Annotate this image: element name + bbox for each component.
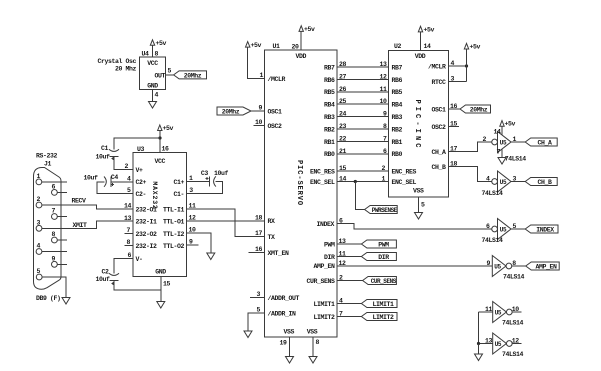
- svg-text:10uf: 10uf: [96, 154, 111, 161]
- svg-text:C4: C4: [111, 174, 119, 181]
- J1 pin 6: [52, 190, 58, 196]
- svg-text:RB5: RB5: [324, 89, 335, 96]
- net tag 20Mhz at U1 OSC1: [217, 107, 251, 115]
- svg-text:14: 14: [124, 203, 132, 210]
- svg-text:+5v: +5v: [251, 42, 262, 49]
- wire U2 pin 3 RTCC: [449, 81, 467, 83]
- svg-text:U5: U5: [500, 139, 507, 146]
- svg-text:9: 9: [486, 260, 490, 267]
- svg-text:OUT: OUT: [154, 72, 165, 79]
- svg-text:5: 5: [421, 202, 425, 209]
- wire XMIT from J1.3 to U3.13: [42, 221, 133, 228]
- svg-text:U2: U2: [394, 43, 402, 50]
- svg-text:14: 14: [339, 176, 347, 183]
- svg-text:PWM: PWM: [324, 241, 335, 248]
- wire RB6 U1.27 to U2.12: [337, 78, 389, 80]
- junction at /MCLR +5v: [465, 64, 468, 67]
- net tag CH_A: [525, 138, 557, 146]
- svg-text:RB3: RB3: [392, 114, 403, 121]
- wire U3 pin 11 TTL-I1 to U1 TX: [187, 209, 265, 237]
- svg-text:16: 16: [255, 246, 263, 253]
- wire U3 pin 4 C2+ to C4: [111, 181, 133, 183]
- svg-text:8: 8: [126, 239, 130, 246]
- svg-text:232-O2: 232-O2: [136, 231, 158, 238]
- net tag INDEX: [525, 225, 558, 233]
- svg-text:Crystal Osc: Crystal Osc: [97, 58, 136, 65]
- svg-text:12: 12: [339, 260, 347, 267]
- ground at U1 /ADDR_IN: [244, 331, 252, 338]
- svg-text:GND: GND: [155, 269, 166, 276]
- wire from junction to C1: [114, 138, 160, 150]
- wire RB7 U1.28 to U2.13: [337, 66, 389, 68]
- svg-text:3: 3: [256, 291, 260, 298]
- wire U5A output to CH_A tag: [511, 141, 525, 143]
- inverter U5D 74LS14 (AMP_EN): [492, 256, 506, 277]
- net tag LIMIT2: [361, 313, 397, 321]
- wire U2 pin 4 /MCLR to +5v: [449, 65, 467, 67]
- net tag PWRSENSE: [365, 206, 398, 214]
- svg-text:RTCC: RTCC: [431, 79, 446, 86]
- svg-text:10: 10: [379, 98, 387, 105]
- svg-text:RB5: RB5: [392, 89, 403, 96]
- svg-text:VSS: VSS: [413, 187, 424, 194]
- wire U5F output stub: [512, 343, 521, 345]
- svg-text:5: 5: [37, 268, 41, 275]
- wire pin9 stub: [57, 263, 67, 265]
- J1 pin 2: [36, 202, 42, 208]
- junction spare inputs: [477, 342, 480, 345]
- ground at U3 pin 15: [157, 302, 165, 309]
- svg-text:LIMIT1: LIMIT1: [372, 301, 394, 308]
- wire U2 pin 15 OSC2 stub: [449, 126, 460, 128]
- junction on VCC wire: [158, 136, 161, 139]
- svg-text:PWM: PWM: [378, 241, 389, 248]
- ground at J1.5: [62, 298, 70, 305]
- wire U2 pin 16 OSC1 to tag: [449, 108, 461, 110]
- wire U1 pin 5 /ADDR_IN to ground: [248, 313, 265, 331]
- svg-text:23: 23: [339, 123, 347, 130]
- power +5v at U2 /MCLR: [464, 43, 468, 49]
- net tag CH_B: [525, 178, 557, 186]
- wire U5B output to CH_B tag: [511, 181, 525, 183]
- power +5v at U1 VDD: [299, 26, 303, 32]
- svg-text:24: 24: [339, 111, 347, 118]
- net tag CUR_SENS: [363, 277, 397, 285]
- svg-text:ENC_RES: ENC_RES: [310, 168, 335, 175]
- svg-text:TTL-O2: TTL-O2: [163, 243, 185, 250]
- wire U4 pin 8 to +5v: [152, 45, 154, 57]
- svg-text:13: 13: [339, 238, 347, 245]
- ground at U5A pin 7: [498, 158, 506, 165]
- svg-text:C1-: C1-: [173, 191, 184, 198]
- svg-text:VSS: VSS: [307, 328, 318, 335]
- svg-text:20 Mhz: 20 Mhz: [115, 65, 137, 72]
- J1 pin 1: [36, 179, 42, 185]
- svg-text:C1+: C1+: [173, 179, 184, 186]
- svg-text:10uf: 10uf: [214, 170, 229, 177]
- svg-text:17: 17: [255, 230, 263, 237]
- svg-text:14: 14: [424, 43, 432, 50]
- ground at U3 TTL-I2: [207, 253, 215, 260]
- svg-text:XMT_EN: XMT_EN: [268, 250, 290, 257]
- svg-text:2: 2: [339, 275, 343, 282]
- svg-text:U5: U5: [494, 263, 501, 270]
- wire U2 pin 5 VSS to ground: [418, 197, 420, 213]
- svg-text:PWRSENSE: PWRSENSE: [372, 207, 398, 214]
- svg-text:/ADDR_IN: /ADDR_IN: [268, 311, 297, 318]
- net tag LIMIT1: [361, 300, 397, 308]
- svg-text:7: 7: [52, 208, 56, 215]
- svg-text:ENC_SEL: ENC_SEL: [392, 179, 417, 186]
- svg-text:1: 1: [37, 173, 41, 180]
- svg-text:1: 1: [259, 72, 263, 79]
- svg-text:10: 10: [189, 226, 197, 233]
- svg-text:DIR: DIR: [378, 254, 389, 261]
- svg-text:C3: C3: [201, 170, 209, 177]
- svg-text:OSC1: OSC1: [431, 106, 446, 113]
- svg-text:RB7: RB7: [392, 64, 403, 71]
- svg-text:LIMIT1: LIMIT1: [313, 301, 335, 308]
- wire RB1 U1.22 to U2.7: [337, 140, 389, 142]
- wire U3 pin 1 C1+ to C3: [187, 180, 210, 182]
- svg-text:RB3: RB3: [324, 114, 335, 121]
- svg-text:CUR_SENS: CUR_SENS: [306, 278, 335, 285]
- wire U3 pin 12 TTL-O1 to U1 RX: [187, 220, 265, 222]
- J1 pin 7: [52, 214, 58, 220]
- wire RECV from J1.2 to U3.14: [42, 205, 133, 209]
- svg-text:C1: C1: [101, 145, 109, 152]
- svg-text:28: 28: [339, 61, 347, 68]
- power +5v at U3: [158, 125, 162, 131]
- wire spare inputs to ground: [478, 344, 480, 355]
- svg-text:12: 12: [379, 73, 387, 80]
- svg-text:U5: U5: [500, 226, 507, 233]
- svg-text:4: 4: [451, 60, 455, 67]
- svg-text:15: 15: [339, 165, 347, 172]
- wire U4 pin 4 to ground: [152, 90, 154, 102]
- svg-text:18: 18: [255, 214, 263, 221]
- svg-text:RX: RX: [268, 218, 276, 225]
- svg-text:J1: J1: [44, 161, 52, 168]
- connector J1 DB9 outline: [34, 168, 62, 290]
- svg-text:C2: C2: [102, 269, 110, 276]
- wire pin1 stub: [42, 181, 67, 183]
- IC U3 MAX232 body: [133, 153, 187, 277]
- svg-text:10uf: 10uf: [96, 276, 111, 283]
- svg-text:U3: U3: [137, 146, 145, 153]
- svg-text:ENC_SEL: ENC_SEL: [310, 179, 335, 186]
- wire U5E input: [479, 311, 493, 313]
- net tag DIR: [361, 253, 396, 261]
- wire U2 pin 14 VDD to +5v: [420, 32, 422, 51]
- J1 pin 8: [52, 237, 58, 243]
- wire INDEX U1.6 to inverter: [337, 224, 492, 230]
- power +5v at U4: [150, 40, 154, 46]
- svg-text:VCC: VCC: [155, 158, 166, 165]
- svg-text:CUR_SENS: CUR_SENS: [371, 278, 397, 285]
- wire U1 pin 16 XMT_EN stub: [249, 252, 265, 254]
- wire U3 pin 7 232-O2 stub: [125, 233, 134, 235]
- svg-text:9: 9: [189, 238, 193, 245]
- svg-text:+5v: +5v: [424, 27, 435, 34]
- svg-text:232-I1: 232-I1: [136, 219, 158, 226]
- svg-text:7: 7: [383, 135, 387, 142]
- svg-text:74LS14: 74LS14: [502, 351, 524, 358]
- svg-text:CH_B: CH_B: [537, 179, 552, 186]
- inverter U5B 74LS14 (CH_B): [492, 179, 498, 185]
- svg-text:TTL-O1: TTL-O1: [163, 219, 185, 226]
- svg-text:232-I2: 232-I2: [136, 243, 158, 250]
- svg-text:4: 4: [37, 243, 41, 250]
- svg-text:13: 13: [124, 215, 132, 222]
- inverter U5F 74LS14 (spare): [493, 333, 507, 354]
- net tag 20Mhz at U2 OSC1: [460, 105, 491, 113]
- svg-text:3: 3: [189, 187, 193, 194]
- svg-text:18: 18: [450, 161, 458, 168]
- svg-text:VDD: VDD: [295, 53, 306, 60]
- svg-text:3: 3: [451, 76, 455, 83]
- svg-text:RB4: RB4: [392, 102, 403, 109]
- svg-text:8: 8: [52, 231, 56, 238]
- wire U1 pin 8 VSS to ground: [312, 337, 314, 357]
- svg-text:6: 6: [486, 223, 490, 230]
- svg-text:AMP_EN: AMP_EN: [313, 263, 335, 270]
- wire U2 pin 17 CH_A to inverter U5A: [449, 142, 492, 152]
- J1 pin 3: [36, 225, 42, 231]
- wire junction to PWRSENSE tag: [355, 182, 364, 210]
- wire pin7 stub: [57, 216, 67, 218]
- svg-text:74LS14: 74LS14: [503, 274, 525, 281]
- wire +5v riser: [466, 49, 468, 82]
- wire AMP_EN U1.12 to inverter: [337, 265, 492, 267]
- svg-text:10uf: 10uf: [84, 175, 99, 182]
- ground at U1 pin 19: [286, 357, 294, 364]
- wire pin8 stub: [57, 239, 67, 241]
- ground at U4: [149, 102, 157, 109]
- junction on ENC_SEL wire: [354, 180, 357, 183]
- svg-text:8: 8: [316, 339, 320, 346]
- svg-text:1: 1: [189, 175, 193, 182]
- svg-text:AMP_EN: AMP_EN: [535, 263, 557, 270]
- capacitor C3: [208, 176, 210, 186]
- svg-text:12: 12: [189, 214, 197, 221]
- svg-text:4: 4: [127, 175, 131, 182]
- wire ENC_RES U1.15 to U2.2: [337, 170, 389, 172]
- svg-text:74LS14: 74LS14: [482, 237, 504, 244]
- svg-text:RB7: RB7: [324, 64, 335, 71]
- svg-text:27: 27: [339, 73, 347, 80]
- svg-text:TTL-I1: TTL-I1: [163, 207, 185, 214]
- capacitor C1: [109, 149, 119, 151]
- svg-text:C2+: C2+: [136, 179, 147, 186]
- wire U1 pin 19 VSS to ground: [289, 337, 291, 357]
- power +5v at U5A: [500, 121, 504, 127]
- oscillator U4 body: [140, 57, 166, 90]
- svg-text:8: 8: [155, 51, 159, 58]
- svg-text:TTL-I2: TTL-I2: [163, 231, 185, 238]
- svg-text:VSS: VSS: [284, 328, 295, 335]
- net tag AMP_EN: [526, 262, 560, 270]
- svg-text:14: 14: [493, 129, 501, 136]
- wire RB5 U1.26 to U2.11: [337, 91, 389, 93]
- wire RB2 U1.23 to U2.8: [337, 128, 389, 130]
- svg-text:3: 3: [37, 220, 41, 227]
- wire U1.7 to LIMIT2 tag: [337, 316, 361, 318]
- ground at spare inverter inputs: [475, 354, 483, 361]
- wire J1.5 to ground: [42, 277, 66, 298]
- svg-text:19: 19: [280, 340, 288, 347]
- svg-text:INDEX: INDEX: [316, 221, 334, 228]
- svg-text:21: 21: [339, 148, 347, 155]
- svg-text:9: 9: [52, 256, 56, 263]
- svg-text:20Mhz: 20Mhz: [222, 109, 240, 116]
- svg-text:RB2: RB2: [324, 126, 335, 133]
- svg-text:DB9 (F): DB9 (F): [36, 295, 61, 302]
- svg-text:4: 4: [155, 92, 159, 99]
- svg-text:RB6: RB6: [392, 77, 403, 84]
- wire U5D output to AMP_EN tag: [512, 265, 526, 267]
- svg-text:+5v: +5v: [304, 26, 315, 33]
- svg-text:20Mhz: 20Mhz: [184, 72, 202, 79]
- wire RB3 U1.24 to U2.9: [337, 116, 389, 118]
- wire U5F input: [479, 343, 493, 345]
- svg-text:/MCLR: /MCLR: [268, 76, 286, 83]
- svg-text:V-: V-: [136, 256, 143, 263]
- wire U3 pin 16 VCC to +5v: [159, 131, 161, 153]
- svg-text:RB1: RB1: [392, 139, 403, 146]
- svg-text:XMIT: XMIT: [73, 222, 88, 229]
- wire U1.4 to LIMIT1 tag: [337, 303, 361, 305]
- svg-text:GND: GND: [147, 83, 158, 90]
- power +5v at U1 /MCLR: [246, 42, 250, 48]
- svg-text:CH_B: CH_B: [431, 164, 446, 171]
- svg-text:LIMIT2: LIMIT2: [372, 314, 394, 321]
- svg-text:13: 13: [379, 61, 387, 68]
- wire U4 pin 5 OUT: [166, 74, 174, 76]
- svg-text:INDEX: INDEX: [536, 226, 554, 233]
- svg-text:RB4: RB4: [324, 102, 335, 109]
- wire RB0 U1.21 to U2.6: [337, 153, 389, 155]
- svg-text:11: 11: [379, 86, 387, 93]
- ground at U1 pin 8: [309, 357, 317, 364]
- svg-text:20Mhz: 20Mhz: [470, 106, 488, 113]
- inverter U5A 74LS14 (CH_A): [492, 139, 498, 145]
- svg-text:6: 6: [127, 252, 131, 259]
- net tag PWM: [361, 240, 396, 248]
- wire U1.13 to PWM tag: [337, 243, 361, 245]
- svg-text:MAX232: MAX232: [151, 181, 158, 209]
- wire U5A pin 14 to +5v: [501, 126, 503, 135]
- svg-text:OSC2: OSC2: [268, 123, 283, 130]
- svg-text:17: 17: [450, 146, 458, 153]
- svg-text:PIC-INC: PIC-INC: [413, 99, 421, 150]
- svg-text:15: 15: [450, 121, 458, 128]
- wire pin4 stub: [42, 251, 67, 253]
- wire U5C output to INDEX tag: [511, 228, 525, 230]
- svg-text:2: 2: [124, 163, 128, 170]
- wire +5v to U1 pin 1 /MCLR: [248, 47, 265, 78]
- svg-text:RS-232: RS-232: [36, 153, 58, 160]
- svg-text:CH_A: CH_A: [431, 149, 446, 156]
- svg-text:RB2: RB2: [392, 126, 403, 133]
- svg-text:U5: U5: [500, 179, 507, 186]
- svg-text:4: 4: [486, 176, 490, 183]
- wire ENC_SEL U1.14 to U2.1: [337, 181, 389, 183]
- svg-text:6: 6: [383, 148, 387, 155]
- svg-text:5: 5: [127, 187, 131, 194]
- svg-text:CH_A: CH_A: [537, 139, 552, 146]
- capacitor C4: [110, 177, 112, 187]
- svg-text:9: 9: [383, 111, 387, 118]
- svg-text:U5: U5: [495, 309, 502, 316]
- svg-text:U4: U4: [142, 51, 150, 58]
- svg-text:LIMIT2: LIMIT2: [313, 314, 335, 321]
- wire spare inputs tied: [478, 312, 480, 344]
- svg-text:C2-: C2-: [136, 191, 147, 198]
- wire U3 pin 9 TTL-O2 stub: [187, 244, 199, 246]
- wire pin6 stub: [57, 191, 67, 193]
- wire C1 to U3 pin 2 V+: [114, 157, 133, 170]
- svg-text:RECV: RECV: [72, 198, 87, 205]
- wire C4 to U3 pin 5 C2-: [97, 182, 133, 194]
- svg-text:6: 6: [52, 184, 56, 191]
- svg-text:2: 2: [381, 165, 385, 172]
- svg-text:+5v: +5v: [156, 40, 167, 47]
- wire U3 pin 10 TTL-I2 to ground: [187, 233, 211, 253]
- svg-text:OSC1: OSC1: [268, 109, 283, 116]
- svg-text:OSC2: OSC2: [431, 124, 446, 131]
- wire C2 to GND line: [114, 281, 161, 291]
- wire U3 pin 6 V- to C2: [114, 259, 133, 274]
- svg-text:22: 22: [339, 135, 347, 142]
- svg-text:25: 25: [339, 98, 347, 105]
- svg-text:/MCLR: /MCLR: [428, 63, 446, 70]
- svg-text:DIR: DIR: [324, 254, 335, 261]
- svg-text:+5v: +5v: [470, 44, 481, 51]
- wire RB4 U1.25 to U2.10: [337, 103, 389, 105]
- svg-text:6: 6: [339, 218, 343, 225]
- wire U1 pin 20 VDD to +5v: [300, 32, 302, 51]
- svg-text:9: 9: [258, 105, 262, 112]
- svg-text:7: 7: [126, 227, 130, 234]
- svg-text:VCC: VCC: [147, 60, 158, 67]
- svg-text:RB6: RB6: [324, 77, 335, 84]
- svg-text:+5v: +5v: [163, 125, 174, 132]
- svg-text:15: 15: [163, 281, 171, 288]
- J1 pin 4: [36, 249, 42, 255]
- svg-text:232-O1: 232-O1: [136, 207, 158, 214]
- svg-text:/ADDR_OUT: /ADDR_OUT: [268, 295, 300, 302]
- ground at U2 pin 5: [415, 213, 423, 220]
- wire U1 pin 10 OSC2 stub: [254, 125, 265, 127]
- inverter U5E 74LS14 (spare): [493, 302, 507, 323]
- svg-text:8: 8: [383, 123, 387, 130]
- svg-text:11: 11: [339, 251, 347, 258]
- J1 pin 9: [52, 261, 58, 267]
- svg-text:RB1: RB1: [324, 139, 335, 146]
- wire C3 to U3 pin 3 C1-: [187, 181, 223, 193]
- svg-text:TX: TX: [268, 234, 276, 241]
- svg-text:1: 1: [381, 176, 385, 183]
- svg-text:4: 4: [339, 298, 343, 305]
- IC U1 PIC-SERVO body: [265, 50, 338, 337]
- svg-text:U5: U5: [495, 341, 502, 348]
- svg-text:11: 11: [189, 203, 197, 210]
- svg-text:PIC-SERVO: PIC-SERVO: [295, 160, 303, 206]
- wire tag to U1 pin 9 OSC1: [251, 110, 265, 112]
- wire U3 pin 15 GND to ground: [160, 277, 162, 302]
- wire U5E output stub: [512, 311, 521, 313]
